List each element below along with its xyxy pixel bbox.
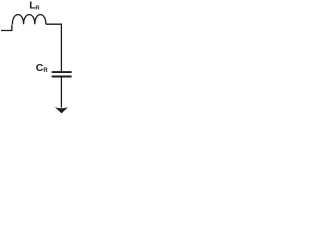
inductor L_R bbox=[12, 15, 46, 25]
svg-text:R: R bbox=[43, 68, 48, 74]
capacitor C_R top plate bbox=[52, 71, 72, 73]
svg-text:R: R bbox=[35, 6, 40, 12]
wire left input lead bbox=[1, 25, 12, 31]
wire top horizontal to right corner and down bbox=[46, 24, 62, 72]
wire from capacitor down to arrow bbox=[60, 77, 62, 107]
capacitor C_R bottom plate bbox=[52, 76, 72, 78]
arrowhead pointing down bbox=[55, 107, 68, 113]
